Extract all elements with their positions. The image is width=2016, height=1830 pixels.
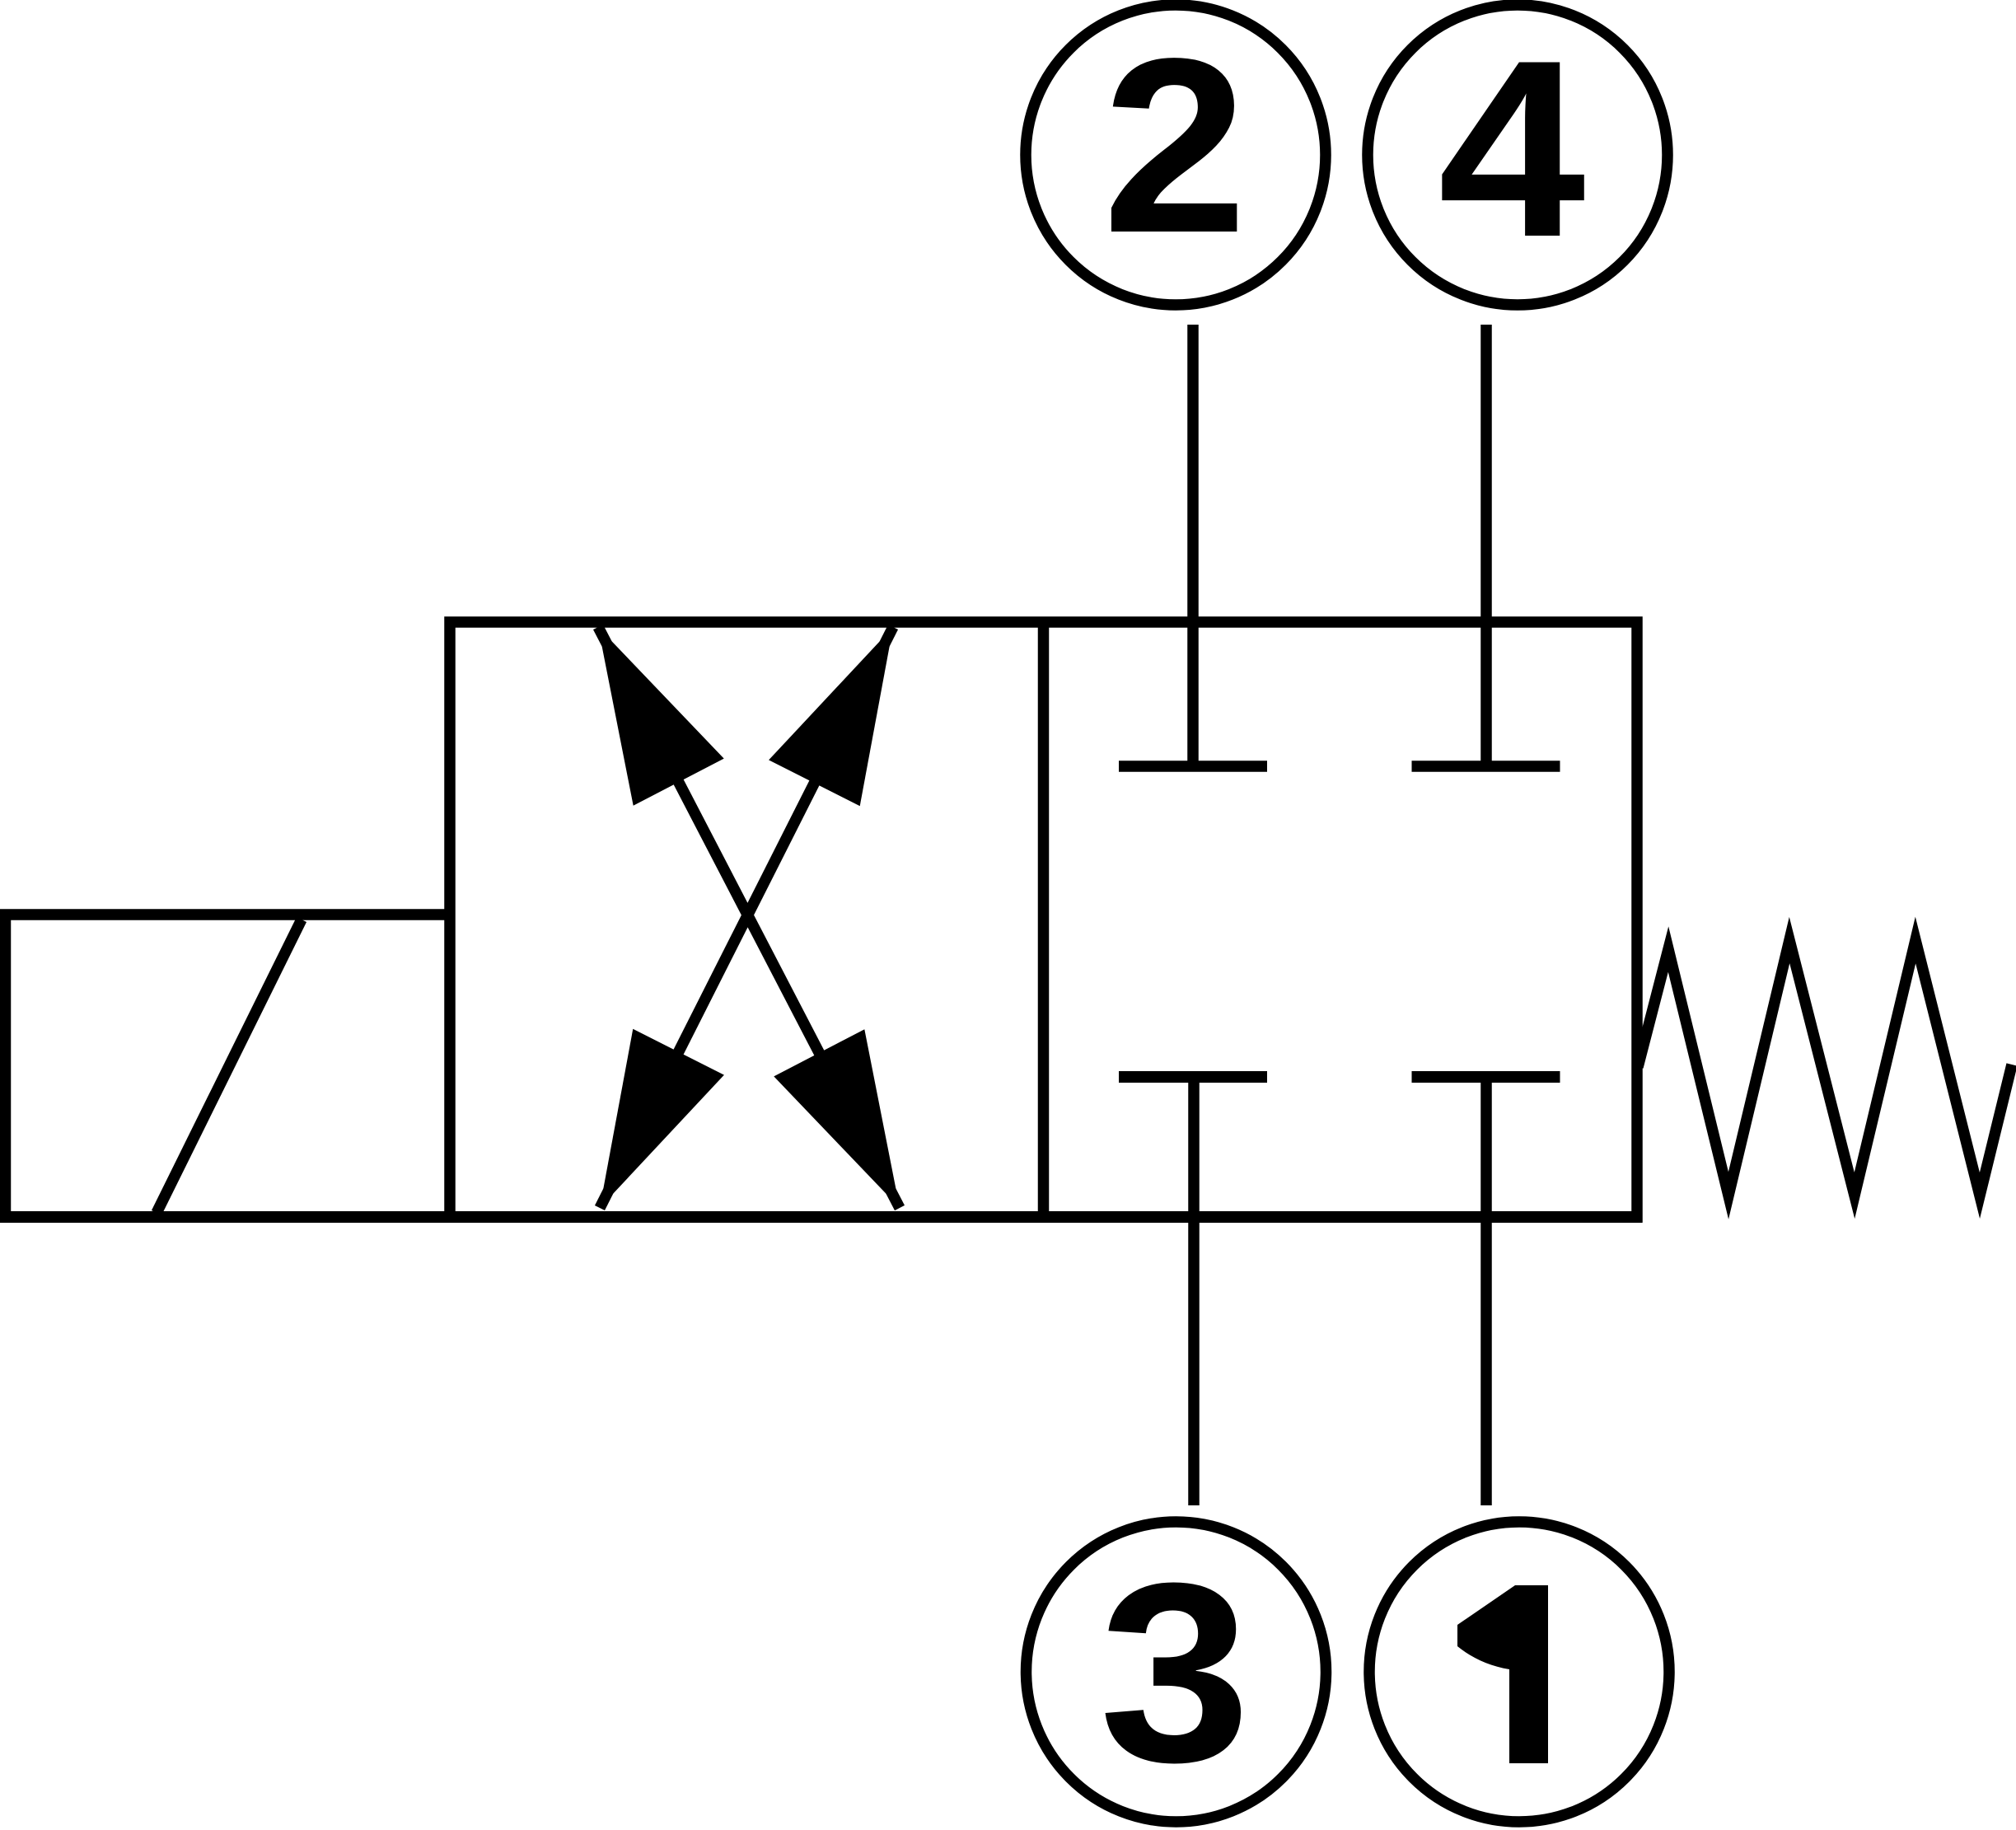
valve position divider — [1038, 622, 1050, 1217]
svg-text:3: 3 — [1099, 1529, 1251, 1815]
port circle 1 — [1369, 1522, 1669, 1822]
port label 1 — [1457, 1585, 1548, 1763]
valve body outer box — [450, 622, 1637, 1217]
arrow A head top-right — [769, 627, 893, 806]
port circle 3 — [1027, 1522, 1326, 1822]
crossed flow arrow A shaft (bottom-left to top-right) — [600, 627, 893, 1208]
port 3 blocked seat bar — [1119, 1071, 1267, 1083]
port circle 2 — [1026, 5, 1326, 305]
wire: bottom rail — [0, 1211, 1643, 1223]
wire: port 3 line — [1188, 1072, 1200, 1505]
wire: port 4 line — [1480, 325, 1492, 771]
port 2 blocked seat bar — [1119, 761, 1267, 772]
arrow B head top-left — [598, 627, 724, 806]
svg-text:4: 4 — [1438, 7, 1588, 289]
wire: port 1 line — [1480, 1072, 1492, 1505]
return spring — [1638, 940, 2012, 1196]
svg-text:2: 2 — [1102, 7, 1247, 284]
port circle 4 — [1368, 5, 1668, 305]
port 4 blocked seat bar — [1412, 761, 1560, 772]
arrow B head bottom-right — [774, 1029, 900, 1208]
solenoid diagonal stroke — [157, 920, 302, 1213]
crossed flow arrow B shaft (top-left to bottom-right) — [598, 627, 900, 1208]
arrow A head bottom-left — [600, 1029, 724, 1208]
port 1 blocked seat bar — [1412, 1071, 1560, 1083]
solenoid coil box — [0, 915, 450, 1217]
wire: port 2 line — [1187, 325, 1199, 771]
